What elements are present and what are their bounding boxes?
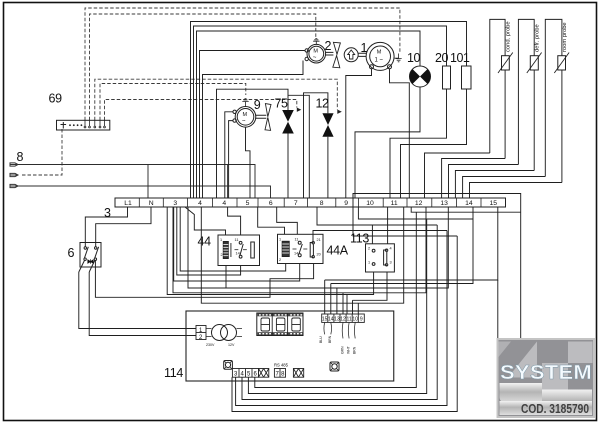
- svg-text:8: 8: [320, 200, 324, 207]
- svg-text:13: 13: [334, 317, 340, 323]
- svg-text:10: 10: [407, 51, 420, 65]
- big 4 glyph: [499, 342, 593, 405]
- svg-text:4: 4: [241, 371, 245, 377]
- svg-text:12: 12: [316, 97, 329, 111]
- svg-text:101: 101: [450, 51, 470, 65]
- motor 1 ground: [394, 54, 402, 62]
- x-box 1: [259, 369, 269, 378]
- loop B pin5: [248, 219, 426, 394]
- svg-text:N: N: [149, 200, 154, 207]
- wire valve12 bottom to strip cell8: [327, 137, 329, 198]
- wire room probe left to strip cell 14: [463, 177, 546, 199]
- svg-text:1: 1: [199, 328, 203, 334]
- wire dashed bus a to motor1 ground: [85, 8, 400, 120]
- svg-text:1: 1: [368, 261, 370, 265]
- svg-text:114: 114: [164, 366, 183, 380]
- pump direction circle: [344, 48, 358, 62]
- svg-text:3: 3: [234, 371, 238, 377]
- svg-text:1 ~: 1 ~: [375, 58, 384, 64]
- wire strip N to switch: [96, 207, 151, 247]
- plug 8 pin3: [10, 184, 18, 187]
- wire room probe right to strip cell 14: [470, 183, 562, 199]
- wire cond probe left to strip cell 12: [425, 153, 490, 198]
- svg-text:12V: 12V: [228, 343, 235, 347]
- wire stubs below connector with labels: [324, 322, 355, 338]
- svg-text:10: 10: [352, 317, 358, 323]
- wire strip L1 to switch: [85, 207, 127, 247]
- shaft coupling: [358, 53, 366, 56]
- arrowhead valve 75 actuator: [297, 108, 302, 112]
- wire 44A coil pin2 down-left to strip cell3: [180, 207, 286, 271]
- wire valve75 bypass to strip cell8: [288, 95, 309, 198]
- plug 8 pin2: [10, 173, 18, 176]
- wire motor1 right terminal to strip cell 12: [390, 69, 410, 198]
- connector 3456: [232, 369, 258, 378]
- svg-text:12: 12: [340, 317, 346, 323]
- svg-text:21: 21: [317, 238, 321, 242]
- svg-text:15: 15: [490, 200, 498, 207]
- svg-text:defr. probe: defr. probe: [534, 24, 540, 52]
- room probe resistor: [554, 53, 569, 74]
- wire dashed from connector 69 plus pin to plug 8: [20, 129, 62, 175]
- svg-text:4: 4: [390, 247, 392, 251]
- svg-text:~: ~: [242, 118, 246, 124]
- wire net y219 below strip: [358, 207, 473, 219]
- wire cell3 + cell12 + conn pin12 net: [173, 207, 426, 293]
- wire valve75 bottom to strip cell7: [287, 134, 289, 199]
- wire motor9 bottom to staircase: [246, 127, 251, 198]
- loop D pin3: [236, 231, 447, 406]
- wire strip cell6 to 44A coil pin1: [258, 207, 285, 234]
- svg-text:14: 14: [465, 200, 473, 207]
- svg-text:15: 15: [322, 317, 328, 323]
- 7-segment display block: [257, 313, 303, 336]
- resistor 101: [462, 66, 472, 89]
- wire strip4a to fan 10: [197, 31, 421, 198]
- wire cell4a + cell11-12 + conn pin9 net: [201, 207, 403, 303]
- svg-text:M: M: [377, 50, 382, 56]
- plug 8 pin1: [10, 163, 18, 166]
- svg-text:10: 10: [366, 200, 374, 207]
- terminal strip body: [115, 198, 506, 207]
- loop A pin6: [255, 212, 416, 387]
- svg-text:9: 9: [254, 98, 261, 112]
- arrowhead valve 12 actuator: [337, 110, 342, 114]
- connector 12 in 114: [196, 326, 206, 340]
- x-circle symbol right: [330, 362, 339, 371]
- wire net y236 link: [353, 194, 457, 237]
- svg-text:BRN: BRN: [353, 346, 357, 354]
- wire conn pin14 drop: [330, 284, 332, 315]
- svg-text:44A: 44A: [327, 244, 349, 258]
- wire net y212 below strip: [411, 207, 521, 212]
- svg-text:8: 8: [281, 371, 285, 377]
- svg-text:7: 7: [294, 200, 298, 207]
- svg-text:9: 9: [344, 200, 348, 207]
- fan blade of motor 2: [333, 42, 341, 67]
- svg-text:6: 6: [68, 246, 75, 260]
- svg-text:69: 69: [49, 92, 63, 106]
- svg-text:5: 5: [246, 200, 250, 207]
- wire 44 coil2 + cell4a + cell13 + conn pin13 net: [188, 207, 226, 288]
- svg-text:14: 14: [328, 317, 334, 323]
- svg-text:BLU: BLU: [319, 336, 323, 343]
- svg-text:6: 6: [254, 371, 258, 377]
- room probe loop: [545, 19, 562, 176]
- svg-text:2: 2: [325, 39, 332, 53]
- wire conn pin11 drop: [346, 295, 348, 315]
- svg-text:2: 2: [221, 253, 223, 257]
- wire motor9 upper terminal to strip4b: [225, 112, 233, 198]
- svg-text:75: 75: [275, 97, 288, 111]
- motor 9: [233, 99, 266, 128]
- connector 78: [274, 369, 285, 378]
- wire stub junction cell N: [147, 165, 149, 199]
- wire defr probe right to strip cell 13: [455, 171, 534, 199]
- wire stub junction cell 4b: [227, 165, 229, 199]
- connector 69 body: [57, 120, 110, 130]
- svg-text:GRN: GRN: [341, 346, 345, 354]
- defr probe loop: [518, 19, 534, 164]
- coil hatch 44: [223, 245, 228, 256]
- transformer: [206, 325, 242, 341]
- svg-text:L1: L1: [124, 200, 132, 207]
- svg-text:1: 1: [220, 238, 222, 242]
- wire strip cell4 to 44 coil: [185, 207, 226, 235]
- wire valve12 top link: [304, 93, 328, 198]
- wire conn pin15 drop: [324, 280, 326, 314]
- wire motor9 lower terminal down: [229, 121, 233, 198]
- svg-text:44: 44: [198, 235, 212, 249]
- svg-text:4: 4: [222, 200, 226, 207]
- svg-text:9: 9: [360, 317, 363, 323]
- loop C pin4: [242, 225, 437, 400]
- svg-text:cond. probe: cond. probe: [506, 21, 512, 52]
- svg-text:3: 3: [173, 200, 177, 207]
- svg-text:113: 113: [350, 232, 369, 246]
- svg-text:room probe: room probe: [562, 22, 568, 52]
- svg-text:4: 4: [198, 200, 202, 207]
- wire 113 pin4 to strip cell11: [387, 207, 389, 244]
- switch 6 indicator: [88, 259, 93, 264]
- svg-text:5: 5: [247, 371, 251, 377]
- svg-text:13: 13: [440, 200, 448, 207]
- svg-text:~: ~: [313, 55, 317, 61]
- svg-text:2: 2: [279, 258, 281, 262]
- svg-text:14: 14: [294, 252, 298, 256]
- wire defr probe left to strip cell 13: [449, 165, 519, 199]
- wire 113 pin2 up-left to strip cell8: [317, 207, 372, 244]
- svg-text:7: 7: [276, 371, 280, 377]
- resistor 20: [443, 66, 451, 89]
- wire strip4a to resistor 101: [191, 22, 467, 199]
- wire strip to 44 pin11: [228, 207, 241, 235]
- wire dashed bus e to motor 9 ground: [105, 100, 297, 121]
- x-box 2: [293, 369, 303, 378]
- cond probe resistor: [498, 53, 513, 74]
- svg-text:11: 11: [295, 238, 299, 242]
- motor 2: [305, 38, 333, 63]
- wire dashed bus d to valve 75 arrow: [100, 84, 246, 121]
- wire switch branch to 44A pin20: [95, 260, 313, 297]
- wire 44A pin21 net y230.5: [313, 231, 447, 242]
- wire conn pin12 drop: [342, 293, 344, 314]
- wire dashed bus c to valve 12 arrow: [95, 79, 337, 120]
- svg-text:M: M: [243, 112, 248, 118]
- fan 10: [410, 66, 431, 87]
- svg-text:8: 8: [17, 150, 24, 164]
- wire plug3 to strip cell 6: [18, 186, 271, 198]
- svg-text:20: 20: [435, 51, 448, 65]
- fan blade of motor 9: [265, 104, 271, 131]
- connector 15..9 in 114: [322, 314, 365, 322]
- wire strip14 down to conn pin14: [331, 207, 473, 284]
- terminal labels: [124, 200, 497, 207]
- wire strip15 down to conn pin15: [325, 207, 498, 280]
- wire strip4b to valve 75 top: [217, 89, 289, 198]
- wire motor1 left terminal to strip cell 9: [346, 69, 372, 198]
- wire conn pin9 drop: [357, 303, 359, 314]
- wire dashed bus b to motor2 ground: [90, 14, 316, 120]
- wire switch to 114 pin2: [89, 272, 196, 336]
- wire conn pin10 drop: [352, 300, 354, 314]
- wire strip4a to motor2 upper terminal: [200, 51, 305, 199]
- valve 75: [282, 110, 294, 134]
- svg-text:3: 3: [104, 206, 111, 220]
- cond probe loop: [490, 19, 505, 153]
- svg-text:12: 12: [415, 200, 423, 207]
- wire resistor 101 bottom to strip cell 11: [401, 89, 467, 198]
- connector 69 pin dots: [69, 124, 82, 126]
- svg-text:2: 2: [368, 247, 370, 251]
- valve 12: [322, 113, 333, 136]
- svg-text:11: 11: [391, 200, 398, 207]
- defr probe resistor: [527, 53, 542, 74]
- wire cond probe right to strip cell 13: [442, 159, 506, 199]
- wire 44A pin14 down-left to strip cell3: [174, 207, 300, 281]
- wire 44 pin14 to strip cell3: [177, 207, 241, 275]
- wire strip4a to motor2 lower terminal: [203, 61, 304, 199]
- wire 113 pin2 branch right: [372, 224, 437, 226]
- svg-text:2: 2: [199, 335, 203, 341]
- svg-text:COD. 3185790: COD. 3185790: [521, 401, 589, 416]
- loop E: [232, 236, 457, 412]
- svg-text:3: 3: [390, 261, 392, 265]
- wire resistor 20 bottom to strip cell 11: [390, 89, 447, 198]
- svg-text:WHT: WHT: [347, 346, 351, 354]
- svg-text:14: 14: [236, 252, 240, 256]
- probe labels: [506, 21, 569, 52]
- wire strip cell7 to 44A pin11: [277, 207, 298, 234]
- svg-text:BRN: BRN: [328, 335, 332, 343]
- wire cell3 + conn pin11 + 113 pin1 net: [167, 207, 373, 295]
- motor 1: [366, 42, 394, 70]
- svg-text:11: 11: [346, 317, 351, 323]
- wire fan 10 bottom to strip cell 9: [355, 87, 420, 198]
- wire plug1 to strip cell 6: [18, 165, 255, 199]
- wire 113 pin3 down to conn pin10: [353, 272, 388, 300]
- coil hatch 44A: [282, 244, 289, 253]
- svg-text:M: M: [313, 49, 318, 55]
- svg-text:20: 20: [317, 253, 321, 257]
- svg-text:6: 6: [269, 200, 273, 207]
- screw symbol left: [224, 361, 233, 370]
- svg-text:RS 485: RS 485: [274, 363, 289, 368]
- wire long net above strip to right: [353, 194, 521, 340]
- svg-text:1: 1: [279, 238, 281, 242]
- svg-text:11: 11: [235, 238, 239, 242]
- wire switch to 114 pin1: [79, 272, 196, 329]
- wire strip15 right leg to logo: [497, 280, 499, 339]
- wire strip4a to resistor 20: [194, 26, 447, 198]
- svg-text:230V: 230V: [206, 343, 215, 347]
- svg-text:SYSTEM: SYSTEM: [500, 362, 592, 384]
